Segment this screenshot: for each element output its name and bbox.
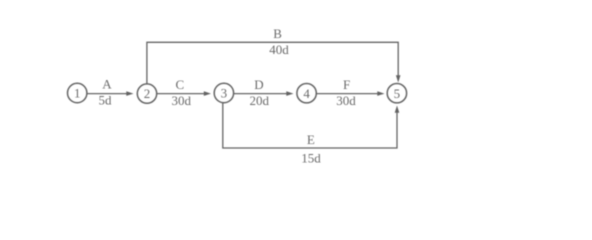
svg-text:F: F: [343, 77, 350, 92]
wire F (4→5): [317, 91, 385, 96]
label A / 5d: [99, 77, 113, 108]
node 5: [387, 84, 406, 103]
wire C (2→3): [157, 91, 211, 96]
wire A (1→2): [87, 91, 133, 96]
svg-text:C: C: [175, 77, 184, 92]
svg-text:5: 5: [394, 86, 401, 101]
svg-text:20d: 20d: [250, 93, 270, 108]
wire B (2→5 top detour): [147, 42, 401, 84]
node 3: [214, 83, 233, 102]
svg-text:E: E: [307, 132, 315, 147]
svg-text:30d: 30d: [172, 93, 192, 108]
svg-text:1: 1: [74, 86, 81, 101]
node 1: [68, 83, 87, 102]
label B / 40d: [269, 26, 289, 57]
svg-text:5d: 5d: [99, 93, 113, 108]
svg-text:2: 2: [144, 86, 151, 101]
svg-text:D: D: [254, 77, 263, 92]
label C / 30d: [172, 77, 192, 108]
svg-text:B: B: [273, 26, 282, 41]
svg-text:40d: 40d: [269, 42, 289, 57]
wire D (3→4): [234, 91, 294, 96]
label F / 30d: [336, 77, 356, 108]
wire E (3→5 bottom detour): [223, 103, 399, 148]
svg-text:3: 3: [221, 86, 228, 101]
node 2: [137, 84, 156, 103]
label E / 15d: [301, 132, 321, 165]
node 4: [297, 84, 316, 103]
svg-text:A: A: [102, 77, 112, 92]
svg-text:15d: 15d: [301, 150, 321, 165]
svg-text:30d: 30d: [336, 93, 356, 108]
svg-text:4: 4: [303, 86, 310, 101]
label D / 20d: [250, 77, 270, 108]
